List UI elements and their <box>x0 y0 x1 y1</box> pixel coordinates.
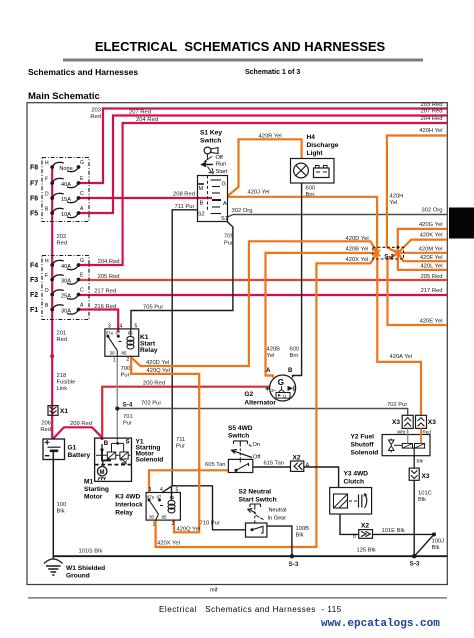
svg-text:Brn: Brn <box>306 192 315 198</box>
page edge black tab <box>449 208 474 239</box>
svg-text:1: 1 <box>153 522 156 528</box>
svg-text:Neutral: Neutral <box>269 508 287 514</box>
svg-text:X3: X3 <box>392 419 400 426</box>
switch S5 4WD <box>228 425 261 473</box>
svg-text:2: 2 <box>127 357 130 363</box>
fuse F8 <box>30 160 84 172</box>
svg-text:40A: 40A <box>61 182 71 188</box>
svg-text:S-2: S-2 <box>384 254 394 261</box>
svg-text:Wht: Wht <box>397 429 406 434</box>
svg-text:Pur: Pur <box>176 444 185 450</box>
svg-text:Start: Start <box>216 169 228 175</box>
ground W1 shielded <box>44 559 105 580</box>
svg-text:710 Pur: 710 Pur <box>200 521 220 527</box>
svg-text:420K Yel: 420K Yel <box>420 232 443 238</box>
svg-text:Yel: Yel <box>390 200 398 206</box>
svg-text:F8: F8 <box>30 165 38 172</box>
svg-text:25A: 25A <box>61 294 71 300</box>
svg-text:Relay: Relay <box>115 510 133 517</box>
wire 600 Brn <box>293 183 302 378</box>
svg-text:Switch: Switch <box>200 138 221 145</box>
svg-text:216 Red: 216 Red <box>94 304 116 310</box>
connector X3 bottom <box>409 456 430 481</box>
svg-text:S: S <box>126 440 130 446</box>
svg-text:H: H <box>45 161 49 167</box>
svg-text:Battery: Battery <box>68 452 91 459</box>
svg-text:Blk: Blk <box>432 545 440 551</box>
svg-text:207 Red: 207 Red <box>129 110 151 116</box>
svg-text:Main Schematic: Main Schematic <box>28 91 100 102</box>
svg-text:Yel: Yel <box>267 353 275 359</box>
svg-text:711: 711 <box>176 437 185 443</box>
wire 420E Yel <box>388 253 448 325</box>
svg-text:W1 Shielded: W1 Shielded <box>66 565 105 572</box>
svg-text:420Q Yel: 420Q Yel <box>177 527 201 533</box>
svg-text:615 Tan: 615 Tan <box>264 461 285 467</box>
svg-text:F5: F5 <box>30 211 38 218</box>
wire Y3 to X2 <box>340 514 359 534</box>
wire 101E Blk <box>373 533 435 535</box>
svg-text:Interlock: Interlock <box>115 502 143 509</box>
svg-text:700: 700 <box>121 366 131 372</box>
svg-text:Schematic 1 of 3: Schematic 1 of 3 <box>245 69 300 76</box>
svg-text:Link: Link <box>57 386 68 392</box>
svg-text:Brn: Brn <box>290 353 299 359</box>
svg-text:420D Yel: 420D Yel <box>346 236 369 242</box>
wire 700/701 Pur <box>116 356 118 443</box>
svg-text:Starting: Starting <box>84 486 109 493</box>
wire 205 Red <box>79 279 448 281</box>
wire 202/201 Red fuse feed <box>51 167 53 439</box>
svg-text:On: On <box>253 442 260 448</box>
svg-text:206: 206 <box>41 420 51 426</box>
svg-text:Run: Run <box>216 161 226 167</box>
wire 209 Red <box>53 427 102 440</box>
svg-text:Solenoid: Solenoid <box>351 450 379 457</box>
wire 207 Red <box>79 116 448 214</box>
svg-text:30: 30 <box>110 351 116 356</box>
svg-text:Blk: Blk <box>417 459 424 464</box>
svg-text:202: 202 <box>57 234 67 240</box>
wire 420L Yel <box>398 253 447 270</box>
svg-text:X2: X2 <box>361 523 369 530</box>
svg-text:Red: Red <box>57 337 68 343</box>
svg-text:203 Red: 203 Red <box>421 102 443 108</box>
svg-text:101C: 101C <box>418 491 432 497</box>
svg-text:302 Org: 302 Org <box>422 208 443 214</box>
svg-text:705 Pur: 705 Pur <box>143 305 163 311</box>
svg-text:Start Switch: Start Switch <box>239 497 277 504</box>
wire 302 Org <box>228 215 448 218</box>
wire 101C Blk <box>413 480 415 556</box>
schematic frame <box>27 103 447 585</box>
svg-text:Red: Red <box>40 427 51 433</box>
svg-text:Relay: Relay <box>140 347 158 354</box>
S1 key switch <box>198 130 228 223</box>
svg-text:S-3: S-3 <box>410 561 420 568</box>
wire 420J Yel <box>228 197 378 253</box>
svg-text:K3 4WD: K3 4WD <box>115 494 140 501</box>
svg-text:Pur: Pur <box>123 421 132 427</box>
fuse F6 <box>30 191 84 203</box>
svg-text:S1: S1 <box>221 216 228 222</box>
svg-text:701: 701 <box>123 414 133 420</box>
svg-text:U: U <box>283 393 286 398</box>
svg-text:217 Red: 217 Red <box>421 288 443 294</box>
svg-text:Shutoff: Shutoff <box>351 442 375 449</box>
svg-text:D: D <box>45 192 49 198</box>
svg-text:87: 87 <box>116 331 121 336</box>
svg-text:G: G <box>278 378 284 387</box>
svg-text:5: 5 <box>135 324 138 330</box>
svg-text:H4: H4 <box>307 134 316 141</box>
svg-text:G2: G2 <box>244 391 253 398</box>
svg-text:204 Red: 204 Red <box>421 116 443 122</box>
svg-text:F7: F7 <box>30 181 38 188</box>
svg-text:None: None <box>59 166 72 172</box>
wire 420K Yel <box>398 240 447 253</box>
svg-text:S1 Key: S1 Key <box>200 130 222 137</box>
svg-text:Ground: Ground <box>66 573 90 580</box>
wire 100B Blk <box>267 526 292 556</box>
svg-text:420G Yel: 420G Yel <box>419 222 443 228</box>
svg-text:S2: S2 <box>198 212 205 218</box>
fuse F2 <box>30 288 84 300</box>
svg-text:100B: 100B <box>296 526 310 532</box>
wire 216 Red <box>79 310 119 333</box>
svg-text:Red: Red <box>90 114 101 120</box>
svg-text:420M Yel: 420M Yel <box>419 246 443 252</box>
svg-text:D: D <box>45 288 49 294</box>
svg-text:217 Red: 217 Red <box>94 289 116 295</box>
battery G1 <box>43 439 91 460</box>
footer rule <box>28 597 447 598</box>
wire 217 Red <box>79 294 448 296</box>
svg-text:F2: F2 <box>30 292 38 299</box>
wire 615 Tan <box>253 467 339 488</box>
svg-text:600: 600 <box>290 347 300 353</box>
svg-text:203: 203 <box>91 108 101 114</box>
svg-text:87a: 87a <box>147 495 155 500</box>
svg-text:B: B <box>200 201 204 207</box>
svg-text:3: 3 <box>108 324 111 330</box>
svg-text:30A: 30A <box>61 279 71 285</box>
svg-text:Pur: Pur <box>224 241 233 247</box>
svg-text:100J: 100J <box>432 539 445 545</box>
svg-text:mif: mif <box>210 587 218 593</box>
relay K1 start relay <box>105 324 158 364</box>
svg-text:Red: Red <box>57 241 68 247</box>
wire 420G Yel <box>398 229 447 253</box>
svg-text:F3: F3 <box>30 277 38 284</box>
svg-text:ELECTRICAL SCHEMATICS AND HAR: ELECTRICAL SCHEMATICS AND HARNESSES <box>95 39 386 54</box>
svg-text:218: 218 <box>57 373 67 379</box>
wire 208 Red <box>79 197 213 199</box>
svg-text:1: 1 <box>113 358 116 364</box>
svg-text:420F Yel: 420F Yel <box>420 255 443 261</box>
wire 711 Pur <box>162 210 246 530</box>
svg-text:C: C <box>80 288 84 294</box>
svg-text:M1: M1 <box>84 479 93 486</box>
svg-text:Red: Red <box>423 429 432 434</box>
svg-text:Clutch: Clutch <box>344 479 365 486</box>
svg-text:85: 85 <box>122 351 128 356</box>
svg-text:201: 201 <box>57 331 67 337</box>
svg-text:In Gear: In Gear <box>268 516 287 522</box>
svg-text:208 Red: 208 Red <box>173 191 195 197</box>
svg-text:H: H <box>45 259 49 265</box>
svg-text:101E Blk: 101E Blk <box>382 528 405 534</box>
svg-text:B: B <box>104 441 109 447</box>
svg-text:Blk: Blk <box>57 509 65 515</box>
svg-text:Schematics and Harnesses: Schematics and Harnesses <box>28 67 138 77</box>
svg-text:A: A <box>306 463 310 469</box>
svg-text:4: 4 <box>160 487 163 493</box>
svg-text:302 Org: 302 Org <box>232 208 253 214</box>
alternator G2 <box>244 368 295 407</box>
svg-text:15A: 15A <box>61 197 71 203</box>
svg-text:125 Blk: 125 Blk <box>357 548 376 554</box>
svg-text:Electrical Schematics and Ha: Electrical Schematics and Harnesses - 11… <box>159 605 342 614</box>
wire 420M Yel <box>398 252 447 254</box>
svg-text:Alternator: Alternator <box>244 400 276 407</box>
svg-text:30: 30 <box>149 515 155 520</box>
fuse F3 <box>30 273 84 285</box>
svg-text:209 Red: 209 Red <box>70 421 92 427</box>
wire 101G Blk ground bus <box>53 555 447 557</box>
svg-text:420L Yel: 420L Yel <box>420 263 442 269</box>
svg-text:420B: 420B <box>267 347 281 353</box>
svg-text:420E Yel: 420E Yel <box>420 319 443 325</box>
svg-text:200 Red: 200 Red <box>143 381 165 387</box>
svg-text:G1: G1 <box>68 445 77 452</box>
svg-text:F4: F4 <box>30 263 38 270</box>
fuse F1 <box>30 303 84 315</box>
page title <box>63 39 423 62</box>
connector X2 (S5-Y3) <box>291 455 310 472</box>
svg-text:Switch: Switch <box>228 433 249 440</box>
svg-text:420H Yel: 420H Yel <box>419 128 442 134</box>
wire 203 Red <box>79 109 448 184</box>
Y3 4WD clutch <box>330 471 372 515</box>
svg-text:205 Red: 205 Red <box>98 274 120 280</box>
svg-text:X1: X1 <box>60 408 68 415</box>
wire 420A Yel <box>377 253 421 415</box>
svg-text:F: F <box>45 177 48 183</box>
svg-text:X3: X3 <box>428 419 436 426</box>
svg-text:S5 4WD: S5 4WD <box>228 425 253 432</box>
svg-text:420J Yel: 420J Yel <box>248 189 270 195</box>
svg-text:M: M <box>199 186 204 192</box>
svg-text:A: A <box>223 201 227 207</box>
svg-text:www.epcatalogs.com: www.epcatalogs.com <box>321 618 440 630</box>
svg-text:Y2 Fuel: Y2 Fuel <box>351 434 375 441</box>
svg-text:Blk: Blk <box>296 533 304 539</box>
svg-text:420D Yel: 420D Yel <box>146 360 169 366</box>
junction S-3 left <box>290 554 294 558</box>
H4 discharge light <box>291 134 339 183</box>
wire labels <box>40 102 444 568</box>
wire 204 Red <box>79 123 448 265</box>
connector X3 pair top <box>392 415 436 434</box>
svg-text:2: 2 <box>172 521 175 527</box>
S-2 splice <box>373 246 404 261</box>
svg-text:S-3: S-3 <box>289 561 299 568</box>
svg-text:4: 4 <box>120 324 123 330</box>
connector X2 (Y3 out) <box>353 523 373 539</box>
svg-text:10A: 10A <box>61 212 71 218</box>
svg-text:Fusible: Fusible <box>57 380 76 386</box>
svg-text:40A: 40A <box>61 264 71 270</box>
wire 420H Yel <box>387 136 447 254</box>
svg-text:Solenoid: Solenoid <box>136 457 164 464</box>
svg-text:86: 86 <box>170 495 175 500</box>
fuse F5 <box>30 206 84 218</box>
svg-text:420A Yel: 420A Yel <box>390 354 413 360</box>
svg-text:205 Red: 205 Red <box>421 274 443 280</box>
svg-text:Pur: Pur <box>121 372 130 378</box>
svg-text:3: 3 <box>149 487 152 493</box>
svg-text:100: 100 <box>57 502 67 508</box>
relay K3 4WD interlock relay <box>115 487 180 528</box>
svg-text:C: C <box>80 191 84 197</box>
svg-text:600: 600 <box>306 185 316 191</box>
svg-text:420Q Yel: 420Q Yel <box>147 368 171 374</box>
svg-text:G: G <box>222 182 226 188</box>
svg-text:705: 705 <box>224 234 234 240</box>
wire 420D Yel <box>131 241 377 366</box>
connector X1 <box>48 406 68 416</box>
wire 420Q Yel <box>131 357 199 533</box>
fuse F4 <box>30 258 84 270</box>
svg-text:Off: Off <box>253 455 261 461</box>
svg-text:204 Red: 204 Red <box>98 259 120 265</box>
svg-text:G: G <box>80 258 84 264</box>
junction 101E/100J <box>432 532 436 536</box>
svg-text:A: A <box>266 368 271 374</box>
svg-text:420B Yel: 420B Yel <box>346 247 369 253</box>
fuse block lower <box>42 256 89 320</box>
svg-text:Discharge: Discharge <box>307 142 339 149</box>
switch S2 neutral start <box>239 489 287 538</box>
wire 200 Red <box>102 387 270 440</box>
wire 420R Yel <box>228 139 302 196</box>
junction S-3 right <box>412 554 416 558</box>
junction 201 Red <box>50 354 54 358</box>
svg-text:Off: Off <box>216 155 224 161</box>
fuse F7 <box>30 176 84 188</box>
svg-text:207 Red: 207 Red <box>421 109 443 115</box>
svg-text:702 Pur: 702 Pur <box>387 402 407 408</box>
svg-text:Blk: Blk <box>418 497 426 503</box>
wire 702 Pur <box>117 409 407 416</box>
svg-text:702 Pur: 702 Pur <box>141 401 161 407</box>
svg-text:605 Tan: 605 Tan <box>205 462 226 468</box>
svg-text:G: G <box>80 160 84 166</box>
svg-text:420X Yel: 420X Yel <box>346 257 369 263</box>
svg-text:101G Blk: 101G Blk <box>79 549 103 555</box>
fuse block upper <box>42 158 89 222</box>
svg-text:87a: 87a <box>106 331 114 336</box>
svg-text:F6: F6 <box>30 196 38 203</box>
svg-text:B: B <box>288 368 293 374</box>
junction S-4 <box>115 407 119 411</box>
svg-text:85: 85 <box>162 515 168 520</box>
svg-text:X3: X3 <box>422 473 430 480</box>
wire 605 Tan <box>149 470 228 492</box>
wire 420F Yel <box>398 253 447 261</box>
wire 100 Blk battery negative <box>52 451 54 560</box>
Y1 starting motor solenoid / M1 starting motor <box>84 438 163 500</box>
svg-text:F1: F1 <box>30 307 38 314</box>
svg-text:Y3 4WD: Y3 4WD <box>344 471 369 478</box>
svg-text:B: B <box>353 534 356 539</box>
svg-text:5: 5 <box>176 488 179 494</box>
wire 100J Blk <box>414 534 434 556</box>
Y2 fuel shutoff solenoid <box>351 434 431 457</box>
svg-text:420X Yel: 420X Yel <box>157 540 180 546</box>
svg-text:F: F <box>45 273 48 279</box>
svg-text:420H: 420H <box>390 194 404 200</box>
svg-text:30A: 30A <box>61 309 71 315</box>
svg-text:420R Yel: 420R Yel <box>259 134 282 140</box>
wire 420X Yel <box>156 253 377 547</box>
svg-text:204 Red: 204 Red <box>136 117 158 123</box>
svg-text:M: M <box>100 470 105 476</box>
svg-text:711 Pur: 711 Pur <box>175 204 195 210</box>
svg-text:S2 Neutral: S2 Neutral <box>239 489 272 496</box>
svg-text:Light: Light <box>307 150 324 157</box>
svg-text:S-4: S-4 <box>123 402 133 409</box>
wire 705 Pur <box>131 222 233 330</box>
svg-text:Motor: Motor <box>84 494 103 501</box>
wire 420B Yel <box>266 253 378 378</box>
